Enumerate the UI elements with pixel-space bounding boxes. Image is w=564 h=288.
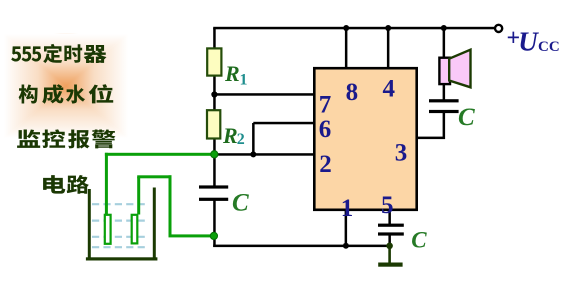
svg-text:C: C	[232, 190, 249, 217]
svg-text:CC: CC	[538, 39, 560, 55]
svg-text:1: 1	[341, 195, 354, 222]
svg-text:R: R	[222, 123, 238, 148]
svg-text:2: 2	[237, 131, 245, 148]
svg-text:2: 2	[319, 151, 332, 178]
svg-text:U: U	[518, 27, 539, 57]
svg-text:C: C	[458, 104, 475, 131]
svg-text:C: C	[411, 228, 427, 253]
svg-text:5: 5	[381, 192, 394, 219]
svg-text:4: 4	[382, 76, 395, 103]
svg-text:3: 3	[395, 139, 408, 166]
svg-text:1: 1	[240, 72, 248, 89]
svg-text:8: 8	[346, 79, 359, 106]
svg-text:6: 6	[319, 116, 332, 143]
svg-text:7: 7	[319, 92, 332, 119]
svg-text:R: R	[224, 61, 240, 86]
